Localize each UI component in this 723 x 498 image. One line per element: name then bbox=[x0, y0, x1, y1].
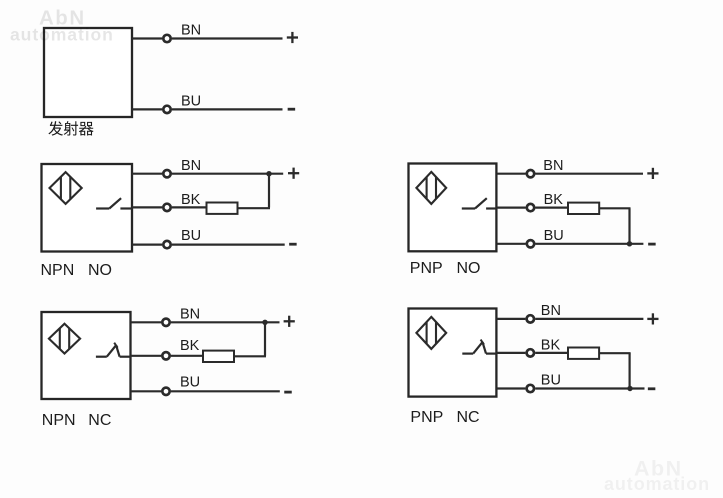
svg-text:automation: automation bbox=[10, 25, 114, 45]
svg-text:BU: BU bbox=[181, 93, 201, 109]
svg-text:NPN: NPN bbox=[41, 262, 75, 279]
svg-text:BN: BN bbox=[180, 306, 200, 322]
svg-text:BK: BK bbox=[181, 192, 201, 208]
svg-text:BK: BK bbox=[180, 338, 200, 354]
svg-text:BN: BN bbox=[541, 303, 561, 319]
svg-text:BN: BN bbox=[543, 158, 563, 174]
svg-text:BU: BU bbox=[544, 228, 564, 244]
svg-text:BU: BU bbox=[541, 372, 561, 388]
svg-text:BK: BK bbox=[544, 192, 564, 208]
svg-text:NO: NO bbox=[457, 260, 481, 277]
svg-text:NC: NC bbox=[88, 412, 111, 429]
svg-text:BK: BK bbox=[541, 337, 561, 353]
svg-text:PNP: PNP bbox=[410, 409, 443, 426]
svg-text:BN: BN bbox=[181, 158, 201, 174]
svg-text:NC: NC bbox=[457, 409, 480, 426]
svg-text:NO: NO bbox=[88, 262, 112, 279]
svg-text:PNP: PNP bbox=[410, 260, 443, 277]
svg-text:automation: automation bbox=[604, 474, 710, 494]
svg-text:BU: BU bbox=[181, 228, 201, 244]
svg-text:BN: BN bbox=[181, 23, 201, 39]
svg-text:BU: BU bbox=[180, 375, 200, 391]
svg-text:NPN: NPN bbox=[42, 412, 76, 429]
